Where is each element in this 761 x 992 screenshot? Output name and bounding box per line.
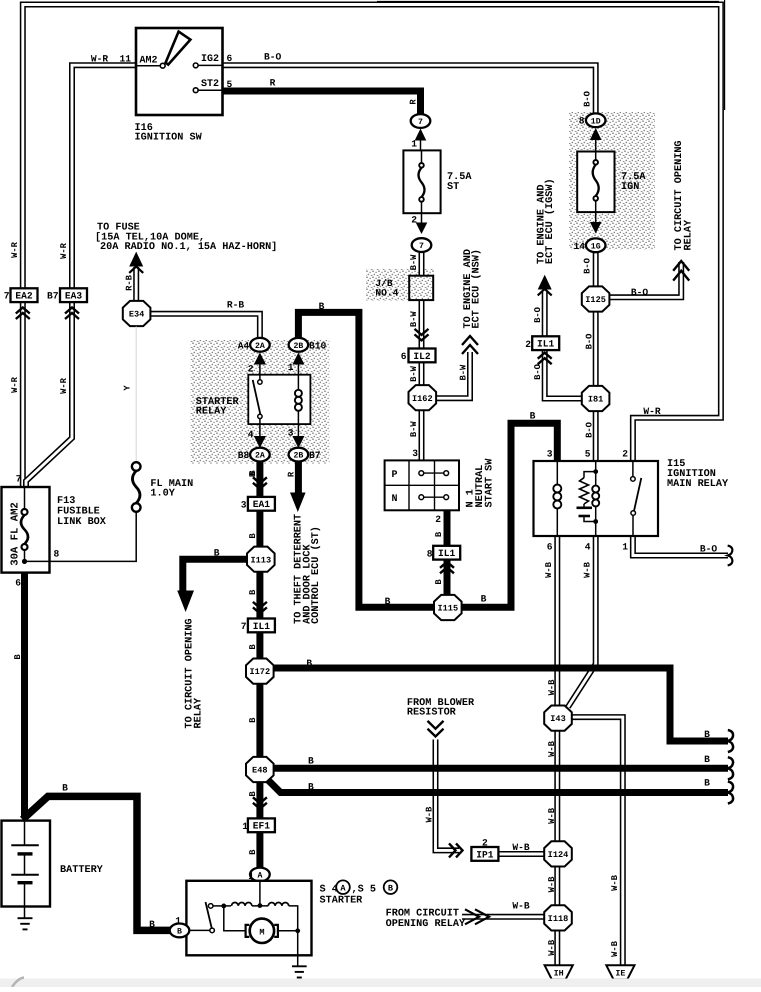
wire label W-B above IE [610, 874, 620, 891]
svg-text:M: M [259, 927, 264, 937]
connector 1G oval [586, 238, 606, 252]
wire B: I113 down to IL1 pin 7 [256, 572, 263, 620]
wire W-R bus: from EA2 up, along top border, down right side to ignition main relay pin 2 [23, 5, 721, 462]
svg-text:6: 6 [401, 351, 407, 362]
wire label B-O above IL1 pin2 [533, 307, 543, 323]
label 7.5A ST [447, 172, 472, 193]
solid arrow up below 1D [590, 128, 602, 152]
label BATTERY [60, 865, 104, 876]
wire label W-R at EA2 lower [10, 376, 20, 393]
wire W-B: I43 right then down to ground IE [570, 717, 623, 965]
svg-text:B-O: B-O [585, 422, 595, 438]
svg-text:B: B [434, 531, 444, 537]
svg-text:EA3: EA3 [65, 291, 83, 302]
octagon connector I115 [434, 595, 462, 620]
wire label B on E48 lower right wire [308, 781, 314, 792]
svg-text:30A FL AM2: 30A FL AM2 [10, 502, 22, 566]
svg-text:B-W: B-W [409, 421, 419, 438]
svg-text:B-O: B-O [700, 544, 718, 555]
svg-text:ST2: ST2 [201, 79, 219, 90]
wire B: I172 right, down, right to splice [272, 668, 728, 741]
svg-text:B: B [248, 849, 258, 855]
svg-text:2A: 2A [255, 452, 265, 461]
svg-text:P: P [392, 470, 398, 481]
wire B: E48 down to EF1 [256, 782, 263, 819]
wire B: starter relay 2A down to EA1 [256, 462, 263, 499]
wire label Y on E34-FL MAIN wire [123, 385, 133, 391]
pin 8 label at F13 [54, 549, 60, 560]
connector IL1 pin 8 [433, 546, 460, 560]
wire label B at bottom splice [704, 777, 710, 788]
svg-text:IP1: IP1 [476, 849, 494, 860]
svg-text:B: B [248, 589, 258, 595]
wire W-B: IP1 to I124 [498, 851, 545, 857]
connector 7 oval above 7.5A ST fuse [411, 114, 431, 128]
wire label W-R at EA3 upper [59, 242, 69, 259]
wire label R-B above E34 right wire [227, 300, 245, 311]
wire B: I115 right, up, right to ignition main relay pin 3 [460, 423, 558, 607]
label TO FUSE list [95, 223, 277, 253]
svg-text:B: B [704, 754, 710, 765]
label F13 FUSIBLE LINK BOX [57, 496, 107, 528]
wire label B below lower 2A [248, 471, 258, 477]
svg-text:E34: E34 [129, 310, 144, 320]
wire B: IL1 pin 7 down to I172 [256, 632, 263, 659]
svg-text:W-R: W-R [59, 242, 69, 259]
wire label B on E48 upper right wire [308, 756, 314, 767]
wire label B-O below IL1 pin2 [533, 364, 543, 380]
svg-text:RESISTOR: RESISTOR [407, 708, 457, 719]
pin 6 label at IG2 [227, 53, 233, 64]
pin 1 label at relay [622, 542, 628, 553]
svg-text:B: B [319, 301, 325, 312]
svg-text:8: 8 [54, 549, 60, 560]
svg-text:I113: I113 [250, 555, 271, 565]
svg-text:B: B [306, 658, 312, 669]
wire label W-R at EA2 upper [10, 241, 20, 258]
wire label R rotated above ST fuse [409, 99, 419, 105]
wire B-W: I162 down to neutral start switch pin 3 [419, 409, 425, 460]
starter relay switch contacts [253, 375, 262, 424]
svg-text:B-W: B-W [459, 364, 469, 381]
svg-text:B: B [704, 729, 710, 740]
svg-text:2: 2 [525, 339, 531, 350]
label J/B NO.4 [375, 278, 398, 299]
fusible link box F13 [2, 487, 50, 573]
wire B-O: I81 down to ignition main relay pin 5 [593, 411, 599, 462]
wire label B at top splice [704, 729, 710, 740]
svg-text:IL1: IL1 [537, 339, 555, 350]
octagon connector I43 [544, 706, 572, 731]
svg-text:TO ENGINE ANDECT ECU (NSW): TO ENGINE ANDECT ECU (NSW) [463, 249, 483, 328]
wire label B below NSW pin2 [434, 531, 444, 537]
wire label W-B below I124 [547, 876, 557, 893]
svg-text:1G: 1G [591, 242, 601, 251]
starter internal circuit [189, 881, 300, 943]
wire B: neutral start switch pin 2 down to IL1 pin 8 [444, 510, 451, 547]
fuse 7.5A ST box [403, 150, 440, 213]
octagon connector E48 [246, 757, 274, 782]
page right border edge line [724, 0, 726, 110]
chevron arrow down above IL2 [415, 329, 429, 341]
wire label B at battery branch [62, 783, 68, 794]
wire from F13 pin 8 to FL MAIN fuse [25, 512, 137, 562]
connector 7 oval below 7.5A ST fuse [412, 238, 432, 252]
starter relay coil [295, 375, 302, 424]
pin 2 label at NSW [435, 514, 441, 525]
svg-text:MAIN RELAY: MAIN RELAY [667, 479, 729, 490]
wire label W-B between IP1 and I124 [512, 842, 530, 853]
chevron arrow up below EA3 [65, 308, 79, 320]
pin 2 label at IL1 [525, 339, 531, 350]
wire W-B: ignition main relay pin 6 down to I43 [554, 536, 560, 706]
neutral start switch N1 box [385, 460, 459, 510]
svg-text:B: B [385, 596, 391, 607]
svg-text:W-B: W-B [544, 561, 554, 578]
wire label W-B below I43 [547, 740, 557, 757]
pin 1 label at starter terminal A [248, 871, 254, 882]
wire label B-W below connector 7 [409, 254, 419, 271]
svg-text:1: 1 [242, 821, 248, 832]
wire label B on I172 right wire [306, 658, 312, 669]
label TO CIRCUIT OPENING RELAY (right) [674, 140, 694, 250]
svg-text:EF1: EF1 [253, 821, 271, 832]
label N 1 NEUTRAL START SW [465, 458, 495, 508]
solid arrow down above lower 2A [254, 424, 266, 448]
svg-text:B7: B7 [309, 450, 321, 461]
pin 1 label at EF1 [242, 821, 248, 832]
wire label B at starter-relay B bus [319, 301, 325, 312]
svg-text:B: B [248, 470, 258, 476]
label FL MAIN 1.0Y [150, 479, 193, 500]
pin 11 label at AM2 [119, 54, 131, 65]
relay coil at pin 3 [553, 461, 561, 536]
svg-text:7: 7 [419, 242, 424, 251]
svg-text:7: 7 [241, 621, 247, 632]
starter box [186, 881, 311, 956]
pin 3 label starter relay [288, 427, 294, 438]
wire B-O: fuse 1G down to I125 [593, 252, 599, 287]
svg-text:B-O: B-O [264, 52, 282, 63]
chevron arrow up below IL1 pin8 [440, 562, 454, 574]
pin 7 label at F13 [16, 474, 22, 485]
svg-text:B10: B10 [309, 340, 327, 351]
octagon connector I125 [582, 286, 610, 311]
wire label W-B at relay pin 6 [544, 561, 554, 578]
wire W-R: EA3 down and diagonal to F13 pin 7 [26, 302, 72, 487]
wire B-O: IL1 pin 2 down and right to I81 [545, 349, 583, 398]
svg-text:1: 1 [288, 362, 294, 373]
wire B-W: I162 right and up to engine/ECT ECU (NSW) arrow [434, 352, 470, 398]
octagon connector I162 [409, 385, 437, 410]
wire B-O: ignition switch IG2 pin 6 to fuse 1D [223, 65, 596, 113]
ground connector IE [606, 965, 634, 979]
label TO ENGINE AND ECT ECU (IGSW) [537, 178, 556, 264]
wire label W-B at I118 left [512, 901, 530, 912]
svg-text:R: R [270, 78, 276, 89]
svg-text:3: 3 [241, 499, 247, 510]
connector EA1 [248, 497, 275, 511]
connector IL2 [409, 349, 436, 363]
svg-text:8: 8 [427, 549, 433, 560]
svg-text:FUSIBLE: FUSIBLE [57, 507, 100, 518]
chevron arrow down from blower resistor [428, 721, 444, 737]
wire B: EF1 down to starter terminal A [256, 832, 263, 868]
svg-text:EA1: EA1 [253, 499, 271, 510]
svg-text:NO.4: NO.4 [375, 288, 398, 299]
svg-text:B-O: B-O [585, 334, 595, 350]
label FROM CIRCUIT OPENING RELAY [386, 909, 466, 931]
svg-text:1: 1 [622, 542, 628, 553]
svg-text:B-O: B-O [583, 91, 593, 107]
wire W-B: I124 down to I118 [554, 867, 560, 906]
pin 7 label at EA2 [4, 291, 10, 302]
svg-text:LINK BOX: LINK BOX [57, 517, 107, 528]
svg-text:I115: I115 [437, 604, 458, 614]
wire B-W: J/B NO.4 down to IL2 [419, 300, 425, 349]
wire R: ignition switch ST2 pin 5 right then down to fuse 7.5A ST connector 7 [223, 91, 421, 114]
wire W-B: from blower resistor down then right to IP1 [436, 740, 460, 851]
svg-text:B: B [248, 533, 258, 539]
svg-text:IGN: IGN [621, 182, 639, 193]
svg-text:B: B [704, 777, 710, 788]
svg-text:3: 3 [547, 449, 553, 460]
wire label B-W above I162 [409, 365, 419, 382]
label TO ENGINE AND ECT ECU (NSW) [463, 249, 483, 328]
wire W-R: ignition switch AM2 pin 11 left then down to EA3 [72, 65, 136, 288]
solid arrow up below 2B [292, 353, 304, 375]
svg-text:W-R: W-R [643, 406, 661, 417]
wire label B right of I115 [481, 594, 487, 605]
wire label B-W below I162 [409, 421, 419, 438]
wire label W-B above IP1 [424, 806, 434, 823]
svg-text:W-B: W-B [547, 876, 557, 893]
wire label B at middle splice [704, 754, 710, 765]
svg-text:FROM CIRCUIT: FROM CIRCUIT [386, 909, 459, 920]
pin B7 label at EA3 [47, 291, 59, 302]
octagon connector I113 [247, 547, 275, 572]
svg-text:B: B [13, 654, 23, 660]
svg-text:B: B [248, 791, 258, 797]
wire label B below F13 [13, 654, 23, 660]
svg-text:8: 8 [579, 116, 585, 127]
connector EA3 [60, 288, 87, 302]
oval connector 2B bottom of starter relay [289, 448, 309, 462]
svg-text:2A: 2A [255, 342, 265, 351]
wire B-W: J/B no.4 fuse ST pin 2 connector 7 down to J/B NO.4 [419, 252, 425, 276]
wire label B-W above IL2 [409, 311, 419, 328]
svg-text:W-R: W-R [59, 377, 69, 394]
wire break curl at right end of E48 upper B wire [728, 757, 733, 779]
wire B: I113 left branch to circuit opening relay arrow [183, 559, 249, 592]
svg-text:EA2: EA2 [15, 291, 33, 302]
pin 3 label at relay [547, 449, 553, 460]
solid arrow up from E34 to fuse [129, 252, 143, 273]
svg-text:B: B [248, 717, 258, 723]
wire B: I172 down to E48 [256, 684, 263, 758]
wire W-B: I118 down to ground IH [554, 931, 560, 966]
wire label B on I113 left branch [214, 548, 220, 559]
fusible link FL MAIN 1.0Y [132, 462, 141, 512]
pin 6 label at F13 [15, 578, 21, 589]
bottom page scan band [0, 978, 761, 988]
svg-text:2B: 2B [293, 342, 303, 351]
chevron arrow up below EA2 [16, 308, 30, 320]
svg-text:STARTER: STARTER [320, 896, 364, 907]
wire B: battery + branch right and down to starter terminal B [23, 796, 171, 930]
solid arrow down above lower connector 7 [416, 213, 428, 234]
wire label B-O below I81 [585, 422, 595, 438]
svg-text:B: B [481, 594, 487, 605]
wire label R-B rotated at E34 arrow [125, 274, 135, 291]
label I16 / IGNITION SW [135, 123, 203, 144]
svg-text:W-R: W-R [10, 241, 20, 258]
svg-text:W-R: W-R [10, 376, 20, 393]
svg-text:2: 2 [411, 215, 417, 226]
svg-text:7: 7 [4, 291, 10, 302]
svg-text:B-O: B-O [583, 258, 593, 274]
wire label B-W at NSW arrow [459, 364, 469, 381]
svg-text:5: 5 [227, 79, 233, 90]
wire W-B: ignition main relay pin 4 down, diagonal into I43 [568, 536, 596, 707]
relay coil and resistor-capacitor at pins 5/4 [577, 461, 600, 536]
svg-text:B: B [248, 644, 258, 650]
wire label B at starter terminal B wire [149, 919, 155, 930]
pin 6 label at relay [547, 542, 553, 553]
wire B: E48 lower right to splice [266, 778, 728, 793]
wire label R at ST2 [270, 78, 276, 89]
svg-text:B-W: B-W [409, 254, 419, 271]
pin 6 label at IL2 [401, 351, 407, 362]
svg-text:5: 5 [585, 449, 591, 460]
chevron arrow down above IL1 pin 7 [253, 602, 267, 614]
label TO CIRCUIT OPENING RELAY (I113 branch) [184, 618, 204, 728]
wire R-B: E34 right then down to starter relay 2A [149, 314, 260, 338]
wire label W-B above I43 [547, 679, 557, 696]
pin 8 label at IL1 pin8 [427, 549, 433, 560]
svg-text:W-B: W-B [583, 561, 593, 578]
svg-text:6: 6 [547, 542, 553, 553]
wire B: E48 right to splice [272, 765, 729, 772]
svg-text:W-B: W-B [512, 901, 530, 912]
label A4 at 2A [238, 340, 250, 351]
connector EF1 [248, 818, 275, 832]
wire B-O: I125 right and up to circuit opening relay arrow [608, 262, 681, 297]
battery ground symbol [18, 907, 33, 930]
svg-text:BATTERY: BATTERY [60, 865, 104, 876]
svg-text:B: B [62, 783, 68, 794]
svg-text:4: 4 [585, 542, 591, 553]
svg-text:1: 1 [411, 138, 417, 149]
wire break curl at right end of B-O pin 1 wire [728, 546, 733, 566]
svg-text:I124: I124 [548, 850, 569, 860]
label B7 at lower 2B [309, 450, 321, 461]
svg-text:6: 6 [15, 578, 21, 589]
wire B-O: I125 down to I81 [593, 311, 599, 387]
wire label B-O above 1D [583, 91, 593, 107]
svg-text:7: 7 [418, 118, 423, 127]
oval connector 2B top of starter relay [289, 338, 309, 352]
svg-text:AM2: AM2 [140, 55, 158, 66]
svg-text:1: 1 [175, 916, 181, 927]
wire label B-O below 1G [583, 258, 593, 274]
wire B: EA1 down to I113 [256, 510, 263, 547]
svg-text:W-B: W-B [547, 740, 557, 757]
chevron arrow down above EA1 [253, 477, 267, 489]
wire break curl at right end of I172 B wire [728, 730, 733, 752]
label FROM BLOWER RESISTOR [407, 698, 475, 719]
svg-text:6: 6 [227, 53, 233, 64]
pin 4 label starter relay [248, 429, 254, 440]
chevron arrow right from circuit opening relay [465, 909, 489, 924]
solid arrow down to circuit opening relay (I113 branch) [177, 591, 194, 613]
wire B: IL1 pin 8 down to I115 [444, 559, 451, 595]
battery box [2, 821, 51, 907]
svg-text:A4: A4 [238, 340, 250, 351]
wire label B below IL1 pin8 [434, 579, 444, 585]
oval terminal A of starter [250, 868, 270, 882]
relay switch at pins 2/1 [631, 461, 642, 536]
solid arrow down above lower 2B [292, 424, 304, 448]
pin 2 label at relay [622, 449, 628, 460]
wire W-B: I43 down to I124 [554, 731, 560, 842]
svg-text:B-W: B-W [409, 311, 419, 328]
svg-text:20A RADIO NO.1, 15A HAZ-HORN]: 20A RADIO NO.1, 15A HAZ-HORN] [100, 241, 277, 253]
pin 1 label starter relay [288, 362, 294, 373]
pin 2 label starter relay [248, 363, 254, 374]
chevron arrow up below IL1 pin2 [538, 353, 552, 365]
svg-text:B-O: B-O [533, 364, 543, 380]
label B8 at lower 2A [238, 450, 250, 461]
label TO THEFT DETERRENT AND DOOR LOCK CONTROL ECU (ST) [294, 514, 322, 624]
wire label B-O at IG2 [264, 52, 282, 63]
wire label B between IL1 and I172 [248, 644, 258, 650]
svg-text:B: B [214, 548, 220, 559]
svg-text:RELAY: RELAY [196, 406, 227, 417]
svg-text:I43: I43 [550, 714, 565, 724]
wire label B left of I115 [385, 596, 391, 607]
svg-text:W-B: W-B [547, 679, 557, 696]
connector IP1 [471, 847, 498, 861]
oval connector 2A bottom of starter relay [250, 448, 270, 462]
svg-text:I162: I162 [412, 394, 433, 404]
wire R: starter relay 2B down to theft deterrent arrow [295, 462, 302, 495]
wire B-O: IL1 pin 2 up to engine/ECT ECU arrow [542, 292, 548, 337]
svg-text:B-W: B-W [409, 365, 419, 382]
svg-text:2: 2 [248, 363, 254, 374]
pin 5 label at relay [585, 449, 591, 460]
wire label W-B at IE bottom [610, 940, 620, 957]
ground connector IH [545, 965, 573, 979]
fuse 7.5A IGN box [577, 152, 614, 213]
oval connector 2A top of starter relay [250, 338, 270, 352]
svg-text:I118: I118 [548, 914, 569, 924]
wire R-B: E34 up to fuse arrow [133, 267, 139, 302]
wire label B above EA1 [248, 470, 258, 476]
shaded background for starter relay block [191, 340, 330, 464]
solid arrow down above 1G [590, 212, 602, 233]
starter relay box [248, 375, 310, 424]
wire label B above relay pin 3 [530, 411, 536, 422]
svg-text:I125: I125 [585, 295, 606, 305]
wire break curl at right end of E48 lower B wire [728, 781, 733, 803]
chevron arrow up to engine and ECT ECU (NSW) [462, 336, 478, 354]
svg-text:W-B: W-B [610, 874, 620, 891]
svg-text:IL1: IL1 [438, 548, 456, 559]
svg-text:IE: IE [615, 968, 625, 978]
svg-text:B7: B7 [47, 291, 59, 302]
svg-text:I172: I172 [249, 667, 270, 677]
